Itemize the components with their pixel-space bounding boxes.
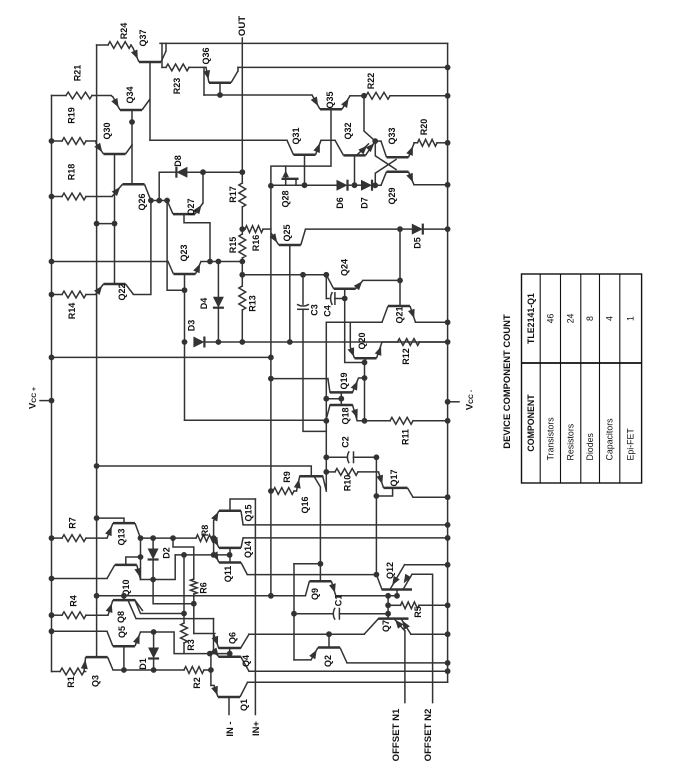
svg-text:Q17: Q17: [389, 469, 399, 486]
wire R3 riser: [183, 555, 185, 614]
transistor Q22: [96, 284, 134, 295]
junction R3 top riser: [181, 552, 187, 558]
wire X96 to base col: [97, 223, 115, 225]
junction R22 left: [361, 93, 367, 99]
wire R8 row: [141, 537, 197, 539]
wire Q16 collector1: [323, 476, 327, 491]
junction rail R22: [445, 93, 451, 99]
svg-text:R21: R21: [73, 65, 83, 82]
svg-text:Q18: Q18: [341, 407, 351, 424]
svg-text:Q27: Q27: [186, 198, 196, 215]
wire R13 bottom: [241, 310, 243, 342]
junction R3 top: [181, 611, 187, 617]
junction D7 Q29: [372, 182, 378, 188]
junction R10 left: [323, 469, 329, 475]
junction emitter col: [211, 552, 217, 558]
wire Q25 base down: [289, 245, 291, 342]
junction D4 bottom: [216, 339, 222, 345]
wire Q35 base to Q28: [286, 109, 331, 166]
wire Q21C to Q20C: [349, 322, 351, 347]
wire bases to X326: [326, 398, 341, 400]
wire R15 bottom: [241, 258, 243, 262]
wire: [241, 172, 243, 183]
wire Q2 base up: [328, 634, 330, 647]
wire Y185 to D6: [271, 184, 337, 186]
wire OUT line: [241, 38, 243, 172]
svg-text:Q13: Q13: [117, 528, 127, 545]
wire Y95: [204, 94, 312, 96]
svg-text:R18: R18: [67, 164, 77, 181]
transistor Q4: [219, 655, 241, 658]
wire R21 Q34 join: [111, 96, 113, 98]
wire Q28 source loop: [271, 166, 286, 186]
resistor R6: [190, 579, 197, 594]
transistor Q29: [381, 172, 414, 186]
wire Q25 collector to D5: [306, 228, 401, 230]
transistor Q20: [350, 342, 382, 358]
wire bias column X96: [96, 45, 98, 657]
wire R19 Q30 join: [95, 141, 97, 143]
junction X96 Y596: [94, 593, 100, 599]
wire Q6 emitter leg: [214, 634, 219, 649]
wire R22 node down to Q32 emitter dot: [364, 96, 375, 141]
wire base riser: [210, 654, 212, 686]
junction base link: [112, 221, 118, 227]
resistor R11: [390, 417, 413, 424]
wire Q31 emitter to Q32 collector: [321, 139, 335, 141]
wire Q4C to rail: [249, 670, 448, 672]
junction Q27C Q23B: [164, 198, 170, 204]
svg-text:Q33: Q33: [387, 127, 397, 144]
transistor Q14: [214, 537, 244, 548]
wire X294 column: [293, 564, 295, 660]
transistor Q8: [108, 600, 143, 615]
junction Q13C: [138, 535, 144, 541]
wire Q34 base Q26 base column: [131, 110, 133, 184]
svg-text:R9: R9: [282, 471, 292, 483]
emitter arrow Q10: [134, 568, 141, 578]
svg-text:D8: D8: [173, 155, 183, 167]
junction rail Y322: [445, 319, 451, 325]
wire Q10C to Y554: [141, 555, 176, 580]
svg-text:R5: R5: [413, 606, 423, 618]
wire Q23 base down: [184, 274, 186, 290]
wire X326 column: [325, 322, 327, 491]
emitter arrow Q16: [294, 479, 301, 489]
wire Q21 emitter to rail: [416, 321, 448, 323]
svg-text:D6: D6: [335, 197, 345, 209]
junction V271 Y357: [268, 355, 274, 361]
transistor Q2: [311, 648, 347, 663]
wire D2 node to R6 dot: [153, 580, 194, 604]
junction rail Y342: [445, 339, 451, 345]
wire to R13: [241, 275, 243, 286]
junction X96 Y466: [94, 463, 100, 469]
wire Q18em to R11: [357, 420, 390, 422]
svg-text:COMPONENT: COMPONENT: [526, 394, 536, 452]
resistor R15: [239, 234, 246, 258]
transistor Q1: [214, 682, 248, 697]
resistor R5: [401, 602, 420, 609]
svg-text:Q19: Q19: [339, 372, 349, 389]
junction rail R5: [445, 602, 451, 608]
wire Q36 base down: [219, 83, 221, 95]
wire D4 anode: [217, 262, 219, 297]
wire: [183, 614, 185, 624]
wire D8 cathode: [159, 172, 165, 200]
junction Q19 coll wire: [268, 376, 274, 382]
svg-text:D7: D7: [360, 197, 370, 209]
wire Q8 collector outer: [135, 600, 184, 613]
junction rail Y184: [445, 182, 451, 188]
transistor Q3: [84, 657, 113, 671]
wire R17 to R15: [241, 207, 243, 229]
emitter arrows Q32: [366, 143, 375, 152]
wire Y261 to Y274: [241, 262, 243, 275]
wire Q11 coll to Q12 coll: [247, 574, 376, 576]
wire Q6 Q4 base ticks: [229, 648, 231, 657]
junction Q25 base: [287, 339, 293, 345]
wire Q18 emitter leg: [353, 405, 358, 421]
svg-text:Q28: Q28: [281, 190, 291, 207]
junction Q26C Q22C: [148, 198, 154, 204]
wire Y554 Q14 Q11 bases: [175, 554, 229, 556]
svg-text:IN+: IN+: [250, 721, 261, 736]
transistor Q11: [214, 552, 248, 575]
wire rail to Q5: [52, 630, 108, 632]
junction Q31 base: [302, 182, 308, 188]
transistor Q32: [335, 140, 375, 155]
wire R1 to Q3: [84, 671, 86, 673]
wire Q37 base / Q34 collector: [149, 62, 151, 140]
wire V271 bottom to Q9 row: [271, 595, 306, 597]
wire Q21 base column: [399, 229, 401, 306]
wire C2 left: [326, 456, 347, 458]
wire D2 cathode: [152, 561, 154, 580]
wire: [52, 537, 63, 539]
junction rail R11: [445, 418, 451, 424]
junction R6 jog: [170, 535, 176, 541]
svg-text:DEVICE COMPONENT COUNT: DEVICE COMPONENT COUNT: [501, 314, 512, 449]
svg-text:Resistors: Resistors: [566, 423, 576, 460]
wire R4 to Q8: [86, 614, 108, 616]
wire Q6C to Q7C: [249, 633, 364, 635]
wire C4 right: [335, 298, 345, 300]
junction rail R18: [49, 194, 55, 200]
wire Q5 base down: [123, 646, 125, 670]
junction rail Y67: [445, 65, 451, 71]
svg-text:R24: R24: [119, 23, 129, 40]
wire Q33 collector to dot: [375, 140, 381, 142]
emitter arrow Q18: [351, 409, 358, 419]
wire Q14 base tick: [229, 548, 231, 555]
junction rail Q10em: [49, 576, 55, 582]
wire Q12 base tick: [396, 590, 398, 596]
transistor Q7: [379, 617, 409, 620]
wire Q7 collector leg: [364, 619, 378, 635]
junction rail Q4C: [445, 668, 451, 674]
junction Q32 emitters / Q33 collector: [372, 138, 378, 144]
wire: [271, 490, 273, 492]
resistor R4: [62, 612, 86, 619]
wire Q8 collector inner: [128, 600, 214, 619]
wire Q11 base tick: [229, 555, 231, 563]
svg-text:R23: R23: [172, 78, 182, 95]
wire R11 to rail: [413, 420, 448, 422]
emitter arrows Q7: [402, 621, 410, 631]
transistor Q16: [300, 475, 323, 478]
junction R16 R15: [239, 226, 245, 232]
junction D1 top: [151, 629, 157, 635]
wire Y342 long: [204, 341, 447, 343]
svg-text:Q11: Q11: [223, 566, 233, 583]
junction Q21 base D5: [397, 226, 403, 232]
transistor Q30: [96, 143, 132, 154]
emitter arrow Q19: [351, 381, 358, 391]
junction Q12 collector: [374, 572, 380, 578]
junction Q24 emitter: [397, 278, 403, 284]
svg-text:R22: R22: [366, 73, 376, 90]
svg-text:R20: R20: [419, 119, 429, 136]
svg-text:R13: R13: [247, 295, 257, 312]
junction Q14 Q11 bases: [227, 552, 233, 558]
svg-text:R15: R15: [228, 237, 238, 254]
junction rail Q5: [49, 628, 55, 634]
svg-text:Q5: Q5: [117, 626, 127, 638]
wire X376 column: [375, 457, 377, 575]
junction rail D5: [445, 226, 451, 232]
transistor Q37: [133, 48, 166, 62]
svg-text:Q29: Q29: [387, 187, 397, 204]
resistor R18: [62, 193, 86, 200]
wire D1 node to base wire: [154, 632, 210, 654]
junction rail Q14: [445, 535, 451, 541]
resistor R13: [239, 286, 246, 310]
transistor Q27: [167, 201, 203, 215]
junction rail R7: [49, 535, 55, 541]
junction Q5 base: [121, 667, 127, 673]
wire Y274: [242, 274, 326, 276]
svg-text:D4: D4: [199, 298, 209, 310]
wire R5 to rail: [419, 604, 448, 606]
wire Y95 riser to R23 node: [203, 67, 205, 95]
diode D7: [361, 180, 372, 191]
wire Q24 base down to Q20 node: [345, 289, 365, 363]
emitter arrow Q4: [211, 648, 219, 657]
wire: [242, 228, 245, 230]
junction X326 bases: [323, 396, 329, 402]
resistor R9: [273, 488, 294, 495]
junction OUT col Y261: [239, 259, 245, 265]
wire Q12 emitter1 leg: [390, 565, 405, 590]
resistor R23: [166, 64, 189, 71]
svg-text:Q20: Q20: [357, 332, 367, 349]
svg-text:8: 8: [585, 316, 595, 321]
resistor R1: [60, 668, 84, 675]
wire Q10 base jog: [126, 557, 141, 565]
svg-text:C4: C4: [323, 305, 333, 317]
wire D6 to D7: [348, 184, 362, 186]
svg-text:R8: R8: [200, 525, 210, 537]
wire Q19em column: [364, 363, 366, 421]
wire Q2 emitter row: [294, 659, 311, 661]
wire: [326, 471, 335, 473]
transistor Q33: [381, 141, 414, 157]
wire Q22 collector up: [134, 201, 151, 295]
wire Y67 to rail: [238, 66, 448, 68]
transistor Q17: [379, 472, 414, 497]
wire Q31 base down: [304, 155, 306, 185]
wire R16 to V271: [263, 228, 271, 230]
wire: [52, 294, 63, 296]
wire D1 anode: [153, 632, 155, 648]
wire right rail: [447, 43, 449, 682]
junction Q23 base: [182, 287, 188, 293]
wire Q5 emitter to D1: [141, 631, 154, 633]
wire Q28 drain: [295, 179, 297, 185]
capacitor C1: [333, 608, 335, 620]
svg-text:R16: R16: [251, 235, 261, 252]
transistor Q9: [305, 581, 335, 596]
resistor R21: [66, 92, 92, 99]
junction C1 right: [385, 611, 391, 617]
svg-text:Q24: Q24: [340, 259, 350, 276]
wire Y140 Q34C to Q31C: [150, 139, 287, 141]
svg-text:TLE2141-Q1: TLE2141-Q1: [526, 293, 536, 344]
transistor Q21: [382, 306, 416, 322]
wire Q17 collector to rail: [413, 496, 448, 498]
wire C3 bottom to Y431: [303, 309, 326, 431]
wire D2 anode: [152, 538, 154, 548]
svg-text:Transistors: Transistors: [545, 417, 555, 461]
junction Q17 base: [374, 493, 380, 499]
junction D8 Q27 emitter: [200, 169, 206, 175]
wire Q6 collector leg: [241, 634, 249, 648]
junction V271 Y596: [268, 593, 274, 599]
junction R11 left: [362, 418, 368, 424]
svg-text:Q35: Q35: [325, 91, 335, 108]
wire Q32 emitter2: [357, 144, 369, 156]
wire Q13 base: [97, 518, 124, 523]
wire Q17 base jog: [376, 488, 392, 496]
svg-text:OFFSET N1: OFFSET N1: [391, 708, 402, 761]
svg-text:Q9: Q9: [310, 588, 320, 600]
diode D8: [176, 167, 187, 178]
junction R8 right: [211, 535, 217, 541]
junction Q6 Q4 bases: [227, 651, 233, 657]
svg-text:R1: R1: [66, 676, 76, 688]
svg-text:R19: R19: [67, 107, 77, 124]
junction rail R19: [49, 138, 55, 144]
wire C3 top lead: [302, 275, 304, 304]
junction D3 left: [182, 339, 188, 345]
wire Q8 base tick: [123, 596, 125, 600]
wire Q7em1 to rail: [411, 633, 448, 635]
svg-text:D2: D2: [162, 547, 172, 559]
diode D4: [213, 297, 224, 308]
wire C4 left lead: [325, 275, 327, 299]
wire Q21 collector: [326, 321, 382, 323]
wire Q12 collector leg: [376, 575, 382, 590]
junction C1 left: [291, 611, 297, 617]
svg-text:Q16: Q16: [300, 496, 310, 513]
wire Q1C to rail corner: [248, 681, 448, 683]
wire R6 top jog: [173, 538, 194, 579]
svg-text:1: 1: [626, 316, 636, 321]
junction Q27 base: [207, 259, 213, 265]
svg-text:R4: R4: [69, 595, 79, 607]
wire Q16 emitter leg: [297, 476, 300, 491]
wire D8 anode to OUT line: [187, 171, 242, 173]
wire C1 left: [294, 613, 333, 615]
resistor R24: [108, 42, 131, 49]
wire Q12em1 to rail: [405, 564, 448, 566]
wire Q19 emitter leg: [353, 378, 365, 392]
wire Q20 base: [365, 358, 367, 362]
emitter arrow Q35: [341, 98, 349, 108]
wire D4 cathode: [217, 309, 219, 342]
wire Q36 collector up: [237, 67, 239, 71]
wire Q23 emitter row: [201, 261, 242, 263]
svg-text:R7: R7: [68, 517, 78, 529]
wire R2 right: [204, 669, 211, 671]
wire: [52, 614, 63, 616]
wire rail to Q23 collector: [52, 261, 169, 263]
resistor R10: [335, 469, 358, 476]
transistor Q25: [271, 229, 306, 245]
svg-text:Q15: Q15: [243, 504, 253, 521]
wire VCC- tap: [448, 401, 459, 403]
wire base link: [210, 653, 230, 655]
wire IN- lead: [228, 697, 230, 715]
junction Q10 base: [138, 554, 144, 560]
svg-text:Q22: Q22: [117, 283, 127, 300]
wire Q27 base to Y261: [184, 214, 210, 261]
wire Q32 base down: [354, 155, 356, 185]
junction D1 bottom: [151, 667, 157, 673]
wire Q18 Q19 base ticks: [340, 392, 342, 405]
transistor Q34: [113, 97, 150, 110]
transistor Q24: [326, 275, 363, 289]
svg-text:D3: D3: [187, 320, 197, 332]
wire: [162, 66, 166, 68]
transistor Q13: [107, 523, 141, 538]
svg-text:46: 46: [545, 314, 555, 324]
wire Q15 base to IN+ col: [230, 499, 255, 511]
junction Y420 X326: [323, 418, 329, 424]
svg-text:Q36: Q36: [201, 47, 211, 64]
wire Q16 collector2 down: [314, 476, 320, 564]
wire Q35 emitter to R22: [350, 95, 364, 97]
wire: [382, 341, 398, 343]
emitter arrow Q6: [212, 636, 219, 646]
transistor Q36: [206, 67, 238, 82]
junction Q24 base C4: [342, 296, 348, 302]
wire Y420 long: [185, 419, 327, 421]
wire Q19 coll to V271: [271, 378, 328, 380]
svg-text:C2: C2: [341, 436, 351, 448]
wire Q12 emitter2 leg: [403, 574, 412, 589]
resistor R22: [366, 92, 390, 99]
wire R9 to Q16: [294, 490, 297, 492]
transistor Q19: [330, 391, 353, 394]
svg-text:Q37: Q37: [138, 29, 148, 46]
wire Q9 base row: [294, 563, 320, 565]
wire to R24: [97, 44, 108, 46]
wire D1 cathode: [153, 660, 155, 670]
svg-text:Q23: Q23: [179, 244, 189, 261]
svg-text:C3: C3: [310, 304, 320, 316]
